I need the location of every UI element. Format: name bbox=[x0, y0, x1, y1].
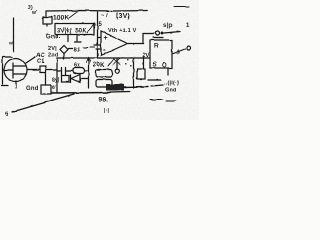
paper grain bbox=[0, 0, 199, 120]
wire Q output diagonal bbox=[172, 49, 185, 54]
svg-text:w: w bbox=[8, 41, 13, 47]
svg-text:6: 6 bbox=[5, 112, 9, 118]
svg-text:R: R bbox=[154, 44, 159, 50]
wire opamp inputs bbox=[98, 37, 102, 39]
wire flip-flop bottom bbox=[167, 68, 169, 75]
wire vertical with arrow bbox=[88, 58, 90, 88]
wire gate diagonal bbox=[26, 57, 35, 63]
potentiometer R2 box 50K bbox=[55, 24, 94, 35]
svg-text:s|p: s|p bbox=[163, 23, 172, 29]
capacitor C2 plates bbox=[62, 68, 66, 75]
svg-text:8y|: 8y| bbox=[52, 78, 60, 84]
svg-text:6': 6' bbox=[52, 85, 56, 91]
svg-text:+: + bbox=[104, 35, 108, 42]
wire left vertical bbox=[13, 18, 15, 52]
svg-text:(3V): (3V) bbox=[116, 13, 130, 20]
svg-text:Vth +1.1 V: Vth +1.1 V bbox=[108, 28, 137, 34]
svg-text:..(|l(·): ..(|l(·) bbox=[164, 81, 179, 87]
svg-text:1: 1 bbox=[186, 23, 190, 29]
svg-text:98.: 98. bbox=[99, 97, 109, 104]
resistor R7 bbox=[62, 76, 70, 83]
resistor R3 pill bbox=[73, 68, 85, 74]
resistor R6 bbox=[137, 69, 145, 79]
junction solid box bbox=[106, 84, 124, 91]
wire bottom dashes bbox=[150, 100, 176, 102]
wire right vertical bbox=[143, 57, 145, 68]
node terminal 2 bbox=[187, 46, 191, 50]
diode D1 bbox=[70, 75, 72, 83]
svg-text:-: - bbox=[103, 46, 106, 55]
wire pot ground ticks bbox=[67, 35, 69, 43]
node output terminal bbox=[156, 31, 160, 35]
component box on rail bbox=[41, 85, 51, 94]
svg-text:81: 81 bbox=[74, 48, 82, 54]
svg-text:9: 9 bbox=[93, 23, 97, 29]
resistor R4 bbox=[96, 70, 112, 78]
wire bottom rail bbox=[51, 92, 110, 95]
wire under opamp bbox=[57, 57, 150, 59]
wire branch bbox=[57, 70, 61, 72]
wire left ground bbox=[2, 57, 13, 86]
wire top rail bbox=[46, 10, 147, 13]
svg-text:Gnd: Gnd bbox=[165, 88, 177, 94]
svg-text:9: 9 bbox=[177, 50, 180, 56]
svg-text:w': w' bbox=[31, 10, 37, 16]
svg-text:Gnd: Gnd bbox=[26, 86, 39, 92]
transistor Q2 marks bbox=[113, 58, 120, 65]
svg-text:5: 5 bbox=[99, 22, 103, 28]
dots bbox=[122, 57, 133, 67]
wire bottom-left dash of box bbox=[148, 79, 161, 81]
wire dashes right rail bbox=[151, 85, 163, 86]
wire dashes bbox=[83, 46, 95, 49]
svg-text:|·|: |·| bbox=[104, 108, 109, 114]
svg-text:50K: 50K bbox=[75, 29, 87, 35]
wire to o/p bbox=[164, 32, 180, 34]
resistor R1 bbox=[45, 11, 47, 17]
svg-text:S: S bbox=[153, 63, 157, 69]
svg-text:Gnd.: Gnd. bbox=[46, 35, 61, 41]
wire dash above box bbox=[153, 37, 163, 39]
transistor Q1 bbox=[4, 59, 27, 82]
svg-text:Q: Q bbox=[162, 63, 167, 69]
wire dash to 81 bbox=[69, 48, 73, 50]
op-amp U1 bbox=[101, 31, 128, 56]
svg-text:2V|: 2V| bbox=[48, 46, 57, 52]
flip-flop U2 bbox=[150, 40, 172, 68]
svg-text:C1: C1 bbox=[37, 59, 46, 65]
junction cross bbox=[94, 44, 101, 46]
svg-text:~ /: ~ / bbox=[101, 13, 108, 19]
resistor R5 bbox=[96, 80, 112, 88]
wire below transistor bbox=[15, 81, 17, 88]
svg-text:20K: 20K bbox=[93, 63, 105, 69]
wire mid vertical bbox=[133, 58, 135, 88]
wire C1 down bbox=[45, 73, 47, 86]
svg-text:100K: 100K bbox=[53, 15, 69, 22]
wire opamp output bbox=[128, 34, 155, 44]
wire middle left vertical bbox=[56, 58, 58, 92]
trimmer diamond bbox=[60, 46, 68, 54]
wire top-right dash bbox=[174, 6, 189, 8]
wire annotation diagonal bbox=[12, 94, 74, 112]
wire vcc vertical bbox=[97, 12, 99, 57]
